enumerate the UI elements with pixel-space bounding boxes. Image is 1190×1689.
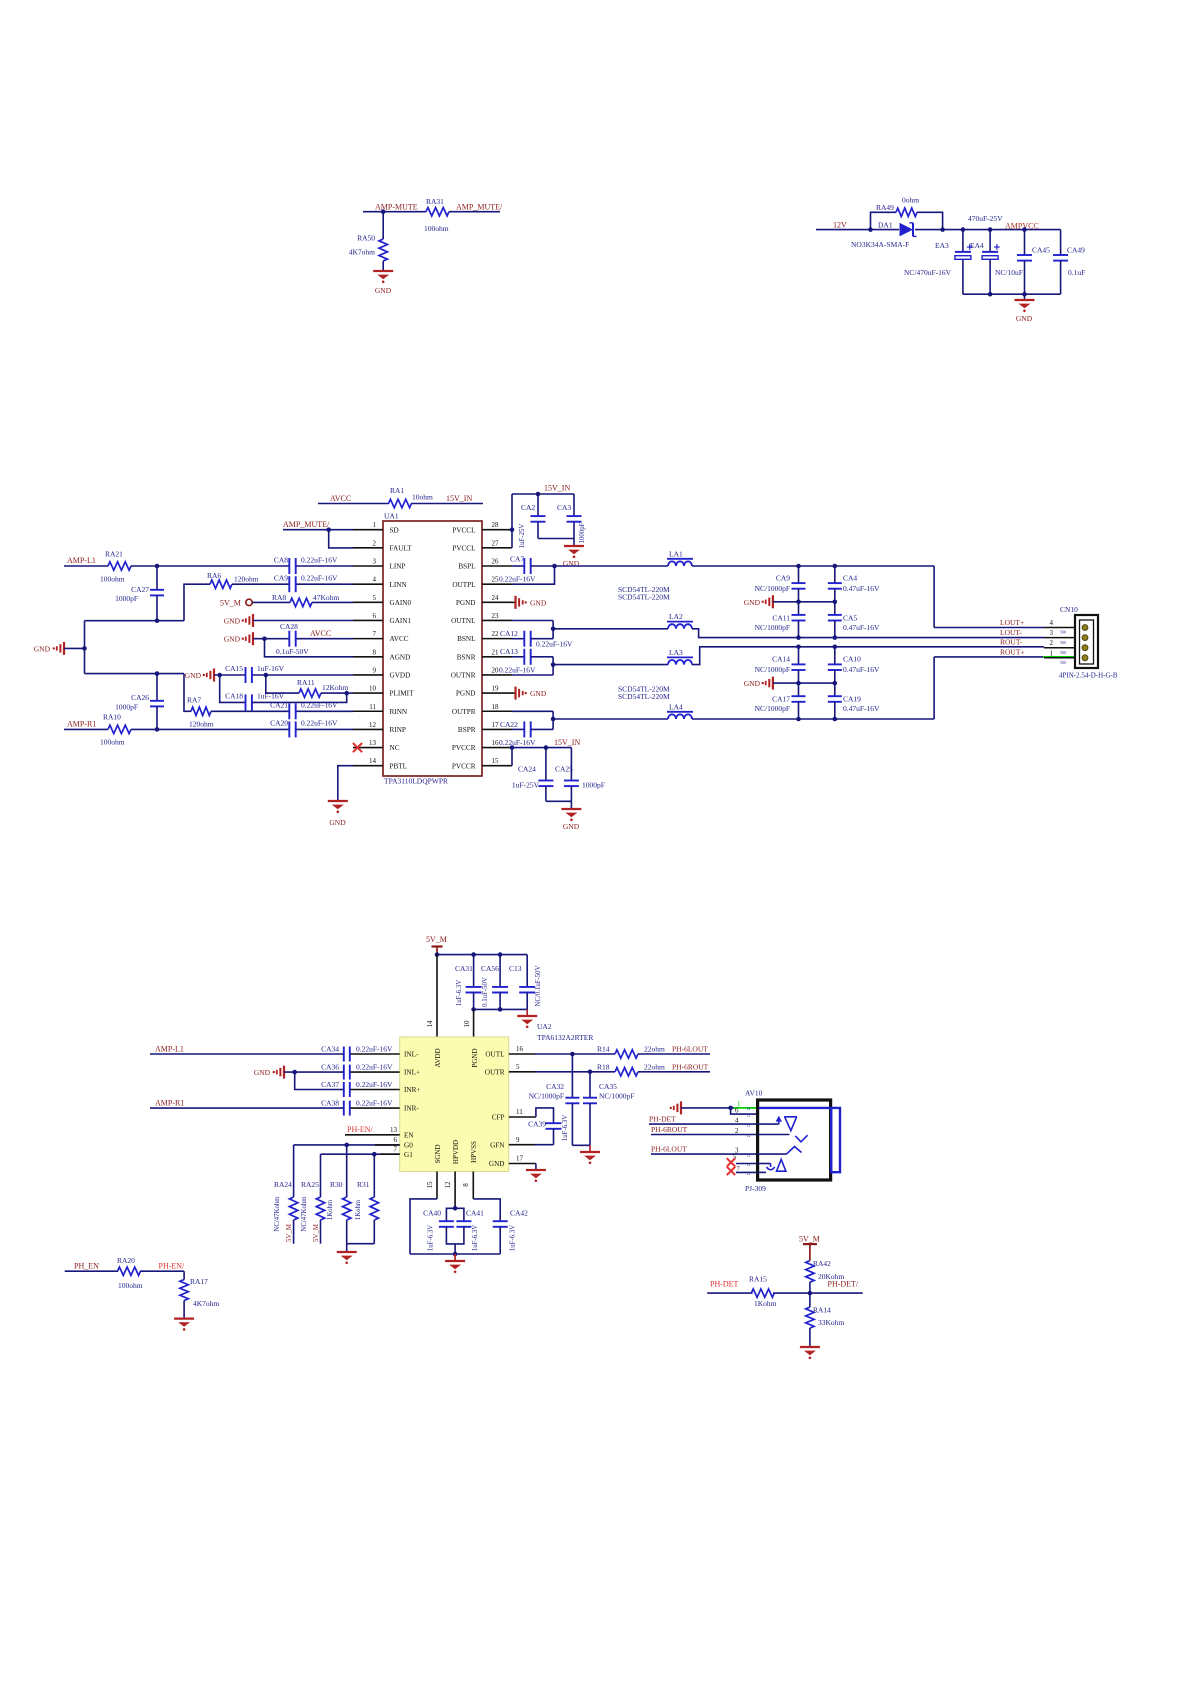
wire OUTR — [535, 1071, 615, 1073]
svg-text:GND: GND — [530, 689, 547, 698]
svg-text:CA40: CA40 — [423, 1209, 441, 1218]
svg-text:4K7ohm: 4K7ohm — [193, 1299, 219, 1308]
capacitor CA56 — [499, 955, 501, 987]
UA1 pin 22 BSNL — [482, 638, 512, 640]
svg-text:100ohm: 100ohm — [100, 575, 125, 584]
svg-text:CA36: CA36 — [321, 1062, 339, 1071]
node CA26 top — [155, 671, 160, 676]
svg-text:LA3: LA3 — [669, 648, 683, 657]
wire ROUT+ green segment — [1043, 656, 1075, 658]
svg-text:RA8: RA8 — [272, 593, 286, 602]
UA2 pin 15 SGND stub — [436, 1172, 438, 1199]
svg-text:12: 12 — [747, 1133, 751, 1138]
svg-text:7: 7 — [373, 630, 377, 638]
resistor R30 — [346, 1145, 348, 1197]
svg-text:12: 12 — [444, 1181, 452, 1189]
node diode anode — [868, 227, 873, 232]
svg-text:33Kohm: 33Kohm — [818, 1318, 844, 1327]
wire SGND to gnd rail — [410, 1199, 437, 1254]
svg-text:ROUT+: ROUT+ — [1000, 648, 1025, 657]
UA1 pin 25 OUTPL — [482, 583, 512, 585]
capacitor CA49 — [1060, 230, 1062, 255]
jack sleeve contact wire — [758, 1153, 787, 1155]
svg-text:AMP_MUTE/: AMP_MUTE/ — [456, 203, 503, 212]
wire to ground — [526, 1009, 528, 1016]
ground at CA3 — [564, 545, 584, 547]
svg-text:AMP-MUTE: AMP-MUTE — [375, 203, 418, 212]
diode DA1 — [900, 223, 914, 237]
wire PBTL to ground — [338, 766, 353, 801]
svg-text:1uF-16V: 1uF-16V — [257, 664, 285, 673]
svg-text:AMP-L1: AMP-L1 — [67, 556, 96, 565]
svg-text:1000pF: 1000pF — [579, 522, 586, 543]
wire RA8 to GAIN0 — [312, 601, 353, 603]
UA2 pin 7 G1 — [321, 1153, 400, 1155]
svg-text:CA38: CA38 — [321, 1098, 339, 1107]
UA1 pin 27 PVCCL — [482, 547, 512, 549]
svg-text:23: 23 — [492, 612, 500, 620]
capacitor CA27 — [156, 566, 158, 590]
svg-text:RA7: RA7 — [187, 696, 201, 705]
svg-text:12V: 12V — [833, 221, 847, 230]
node CA32 tap — [570, 1052, 575, 1057]
wire GND to CA36 — [284, 1071, 344, 1073]
svg-text:20: 20 — [492, 666, 500, 674]
svg-text:PJ-309: PJ-309 — [745, 1184, 766, 1193]
resistor RA24 — [293, 1145, 295, 1197]
svg-text:CA32: CA32 — [546, 1082, 564, 1091]
wire BSPL — [512, 565, 524, 567]
svg-text:INR-: INR- — [404, 1105, 419, 1113]
svg-text:CA21: CA21 — [270, 701, 288, 710]
resistor RA15 — [751, 1289, 774, 1297]
wire to ground — [454, 1254, 456, 1261]
capacitor CA2 — [537, 494, 539, 516]
wire GAIN1 — [253, 620, 353, 622]
svg-text:1: 1 — [1050, 649, 1054, 657]
capacitor CA39 — [546, 1122, 562, 1124]
wire HPVDD box bottom — [446, 1227, 464, 1244]
svg-text:0.22uF-16V: 0.22uF-16V — [499, 575, 536, 584]
svg-text:CA9: CA9 — [274, 574, 288, 583]
svg-text:RA6: RA6 — [207, 571, 221, 580]
svg-text:RA31: RA31 — [426, 197, 444, 206]
svg-text:PH-DET: PH-DET — [649, 1114, 676, 1123]
svg-text:CA45: CA45 — [1032, 246, 1050, 255]
resistor RA8 — [290, 598, 312, 606]
UA1 pin 18 OUTPR — [482, 710, 512, 712]
node OUTNL — [551, 627, 556, 632]
svg-text:18: 18 — [492, 703, 500, 711]
svg-text:0.47uF-16V: 0.47uF-16V — [843, 584, 880, 593]
svg-text:11: 11 — [516, 1108, 523, 1116]
wire to ground — [1024, 294, 1026, 300]
node CA56 top — [498, 952, 503, 957]
svg-text:NC/1000pF: NC/1000pF — [755, 665, 790, 674]
node input gnd — [292, 1070, 297, 1075]
svg-text:4: 4 — [373, 576, 377, 584]
svg-text:4: 4 — [1050, 619, 1054, 627]
node R31 tap — [372, 1152, 377, 1157]
capacitor CA14 — [798, 647, 800, 665]
svg-text:INL-: INL- — [404, 1051, 419, 1059]
junction dots — [796, 645, 801, 650]
wire bottom gnd rail — [410, 1253, 500, 1255]
svg-text:RA20: RA20 — [117, 1256, 135, 1265]
svg-text:1000pF: 1000pF — [115, 703, 138, 712]
wire AMP-L1 to CA34 — [150, 1053, 344, 1055]
svg-text:28: 28 — [492, 521, 500, 529]
svg-text:0.22uF-16V: 0.22uF-16V — [301, 719, 338, 728]
svg-text:AMPVCC: AMPVCC — [1005, 222, 1039, 231]
capacitor CA3 — [573, 494, 575, 516]
jack pin5 contact — [758, 1163, 771, 1165]
capacitor CA21 — [288, 703, 290, 719]
svg-text:RA11: RA11 — [297, 678, 315, 687]
svg-text:OUTPR: OUTPR — [452, 708, 476, 716]
wire LOUT+ — [934, 627, 1044, 629]
svg-text:RA21: RA21 — [105, 550, 123, 559]
ground at jack — [680, 1101, 682, 1114]
capacitor CA17 — [798, 683, 800, 696]
wire OUTNL riser — [531, 638, 553, 640]
capacitor CA13 — [523, 649, 525, 665]
svg-text:NC/1000pF: NC/1000pF — [755, 584, 790, 593]
svg-text:0.22uF-16V: 0.22uF-16V — [356, 1044, 393, 1053]
svg-text:BSPR: BSPR — [458, 726, 476, 734]
wire to ground — [589, 1145, 591, 1152]
UA2 pin 9 GFN — [509, 1144, 535, 1146]
ground at pin17 — [526, 1169, 546, 1171]
ground rail at 601.8 — [772, 595, 774, 608]
svg-text:0.22uF-16V: 0.22uF-16V — [301, 556, 338, 565]
wire PH-DET — [707, 1292, 752, 1294]
capacitor CA10 — [834, 647, 836, 665]
wire AVCC pin — [253, 638, 289, 640]
node CA27 tap — [155, 564, 160, 569]
UA1 pin 28 PVCCL — [482, 529, 512, 531]
svg-text:6: 6 — [735, 1107, 739, 1115]
wire RA50 to ground — [382, 261, 384, 271]
node AGND tie — [262, 636, 267, 641]
wire RA50 to node — [382, 212, 384, 239]
svg-text:RA50: RA50 — [357, 234, 375, 243]
wire pin15 riser — [511, 748, 513, 766]
wire jack pin6 — [731, 1108, 758, 1114]
svg-text:RINN: RINN — [390, 708, 408, 716]
svg-text:0.22uF-16V: 0.22uF-16V — [499, 666, 536, 675]
op-amp U A1 body TPA3110 — [383, 521, 482, 776]
svg-text:1uF-6.3V: 1uF-6.3V — [428, 1225, 435, 1251]
node gnd rail — [453, 1252, 458, 1257]
svg-text:15: 15 — [426, 1181, 434, 1189]
svg-text:0.22uF-16V: 0.22uF-16V — [301, 701, 338, 710]
svg-text:0.22uF-16V: 0.22uF-16V — [301, 574, 338, 583]
wire ground rail — [773, 682, 835, 684]
svg-text:AMP-R1: AMP-R1 — [67, 720, 96, 729]
svg-text:1uF-6.3V: 1uF-6.3V — [456, 980, 463, 1006]
svg-text:3: 3 — [1050, 629, 1054, 637]
resistor RA31 — [426, 208, 449, 216]
svg-text:LINP: LINP — [390, 563, 406, 571]
svg-text:CA42: CA42 — [510, 1209, 528, 1218]
wire trunk bottom rail — [85, 673, 185, 675]
svg-text:25: 25 — [492, 576, 500, 584]
capacitor CA15 — [245, 667, 247, 683]
svg-text:NC/1000pF: NC/1000pF — [755, 704, 790, 713]
svg-text:0.22uF-16V: 0.22uF-16V — [536, 640, 573, 649]
svg-text:RINP: RINP — [390, 726, 406, 734]
svg-text:R14: R14 — [597, 1045, 610, 1054]
svg-text:PGND: PGND — [456, 690, 476, 698]
svg-text:GND: GND — [489, 1160, 505, 1168]
wire ground rail — [773, 601, 835, 603]
svg-text:NC/0.1uF-50V: NC/0.1uF-50V — [535, 965, 542, 1006]
wire CFP to CA39 — [536, 1108, 554, 1123]
svg-text:NC/47Kohm: NC/47Kohm — [274, 1196, 281, 1232]
svg-text:LINN: LINN — [390, 581, 408, 589]
svg-text:BSPL: BSPL — [458, 563, 475, 571]
svg-text:12: 12 — [747, 1153, 751, 1158]
capacitor EA4 — [989, 230, 991, 252]
svg-text:RA24: RA24 — [274, 1180, 292, 1189]
wire RA7 to CA21 — [211, 710, 289, 712]
UA1 pin 21 BSNR — [482, 656, 512, 658]
capacitor CA26 — [156, 674, 158, 701]
ground at CA35 — [580, 1151, 600, 1153]
UA2 pin 6 G0 — [294, 1144, 400, 1146]
svg-text:GND: GND — [329, 818, 346, 827]
svg-text:CA15: CA15 — [225, 664, 243, 673]
svg-text:120ohm: 120ohm — [234, 575, 259, 584]
svg-text:UA1: UA1 — [384, 512, 399, 521]
capacitor CA7 — [523, 558, 525, 574]
svg-text:1000pF: 1000pF — [115, 594, 138, 603]
svg-text:0.1uF-50V: 0.1uF-50V — [482, 977, 489, 1007]
node CA18 left tie — [217, 673, 222, 678]
svg-text:AGND: AGND — [390, 653, 411, 661]
jack detect contact V — [784, 1117, 797, 1131]
ground at RA14 — [800, 1346, 820, 1348]
node CA31 top — [471, 952, 476, 957]
wire RA49 bypass branch — [871, 212, 897, 229]
wire CA24 CA25 bottom — [546, 800, 572, 802]
node GND stem — [1022, 292, 1027, 297]
wire 15V_IN top rail — [512, 493, 574, 495]
inductor LA2 — [668, 624, 692, 629]
wire ROUT+ — [934, 656, 1043, 658]
capacitor CA18 — [245, 694, 247, 710]
wire GVDD to RA11 — [266, 675, 299, 693]
node RA11 left — [264, 673, 269, 678]
node CA24 top — [544, 745, 549, 750]
node EA4 top — [988, 227, 993, 232]
resistor R14 — [615, 1050, 638, 1058]
resistor RA17 — [180, 1280, 188, 1301]
wire 5V_M to RA8 — [252, 601, 290, 603]
svg-text:3: 3 — [373, 558, 377, 566]
svg-text:27: 27 — [492, 539, 500, 547]
svg-text:CA9: CA9 — [776, 573, 790, 582]
wire AMPVCC ground rail — [963, 293, 1061, 295]
capacitor CA36 — [343, 1065, 345, 1080]
ground at AVCC — [252, 632, 254, 645]
svg-text:OUTPL: OUTPL — [452, 581, 475, 589]
wire LA3 step — [692, 647, 1044, 665]
UA1 pin 15 PVCCR — [482, 765, 512, 767]
svg-text:7: 7 — [394, 1146, 398, 1154]
svg-text:RA42: RA42 — [813, 1259, 831, 1268]
svg-text:CA34: CA34 — [321, 1044, 339, 1053]
svg-text:2: 2 — [1050, 639, 1054, 647]
UA1 pin 20 OUTNR — [482, 674, 512, 676]
svg-text:SD: SD — [390, 526, 399, 534]
svg-text:GAIN1: GAIN1 — [390, 617, 412, 625]
svg-text:500: 500 — [1060, 640, 1066, 645]
svg-text:PLIMIT: PLIMIT — [390, 690, 415, 698]
svg-text:8: 8 — [462, 1183, 470, 1187]
svg-text:PGND: PGND — [471, 1048, 479, 1067]
svg-text:HPVDD: HPVDD — [452, 1140, 460, 1164]
svg-text:2: 2 — [373, 539, 377, 547]
capacitor CA12 — [523, 631, 525, 647]
wire gnd to CA37 — [295, 1072, 344, 1089]
capacitor CA35 — [589, 1072, 591, 1098]
svg-text:22ohm: 22ohm — [644, 1062, 665, 1071]
resistor RA1 — [389, 499, 412, 507]
UA1 pin 3 LINP — [353, 565, 383, 567]
wire jack pin7 — [736, 1171, 758, 1173]
svg-text:PVCCR: PVCCR — [452, 744, 476, 752]
svg-text:RA49: RA49 — [876, 203, 894, 212]
UA2 pin 10 PGND stub — [473, 1009, 475, 1037]
capacitor CA38 — [343, 1101, 345, 1116]
wire OUTPR to LA4 — [553, 718, 668, 720]
svg-text:PBTL: PBTL — [390, 762, 408, 770]
svg-text:0.22uF-16V: 0.22uF-16V — [356, 1080, 393, 1089]
svg-text:10: 10 — [369, 685, 377, 693]
node pin28 — [510, 527, 515, 532]
node OUTPL — [552, 564, 557, 569]
svg-text:0ohm: 0ohm — [902, 196, 919, 205]
svg-text:4K7ohm: 4K7ohm — [349, 248, 375, 257]
jack pin7 contact — [758, 1171, 766, 1173]
node CA27 bottom — [155, 618, 160, 623]
UA2 pin 16 OUTL — [509, 1053, 535, 1055]
UA1 pin 23 OUTNL — [482, 619, 512, 621]
svg-text:PVCCR: PVCCR — [452, 762, 476, 770]
svg-text:0.1uF-50V: 0.1uF-50V — [276, 647, 309, 656]
ground at R30 — [337, 1251, 357, 1253]
svg-text:1uF-6.3V: 1uF-6.3V — [562, 1115, 569, 1141]
svg-text:INL+: INL+ — [404, 1069, 420, 1077]
svg-text:PH_EN: PH_EN — [74, 1261, 99, 1270]
UA1 pin 14 PBTL — [353, 765, 383, 767]
svg-text:EN: EN — [404, 1131, 414, 1139]
wire RA42 to node — [809, 1282, 811, 1307]
svg-text:PH-DET/: PH-DET/ — [828, 1279, 859, 1288]
svg-text:OUTL: OUTL — [485, 1051, 504, 1059]
op-amp U A2 body TPA6132A2 — [400, 1037, 509, 1172]
UA2 pin 11 CFP — [509, 1116, 536, 1118]
svg-text:AVCC: AVCC — [390, 635, 409, 643]
svg-text:12Kohm: 12Kohm — [322, 683, 348, 692]
node SD-FAULT tie — [326, 527, 331, 532]
svg-text:RA10: RA10 — [103, 713, 121, 722]
svg-text:SGND: SGND — [434, 1144, 442, 1163]
svg-text:CA39: CA39 — [528, 1120, 546, 1129]
svg-text:5V_M: 5V_M — [220, 599, 241, 608]
wire AVCC to 15V_IN — [318, 503, 389, 505]
svg-text:10: 10 — [463, 1020, 471, 1028]
wire BSPR — [512, 728, 524, 730]
svg-text:1: 1 — [373, 521, 377, 529]
svg-text:CN10: CN10 — [1060, 605, 1078, 614]
svg-text:CA5: CA5 — [843, 613, 857, 622]
svg-text:12: 12 — [369, 721, 377, 729]
wire AGND — [265, 639, 354, 657]
ground rail at 683.1 — [772, 677, 774, 690]
node AVDD — [435, 952, 440, 957]
wire 12V rail — [816, 229, 899, 231]
UA1 pin 17 BSPR — [482, 728, 512, 730]
node PLIMIT tie — [344, 691, 349, 696]
svg-text:GND: GND — [224, 617, 241, 626]
node PGND — [471, 1007, 476, 1012]
svg-text:LOUT+: LOUT+ — [1000, 618, 1024, 627]
UA2 pin 17 GND — [509, 1163, 536, 1165]
capacitor CA24 — [545, 748, 547, 781]
wire PVCCR rail — [512, 747, 571, 749]
UA2 pin INL+ stub — [351, 1071, 400, 1073]
svg-text:PH-6ROUT: PH-6ROUT — [672, 1062, 709, 1071]
svg-text:G1: G1 — [404, 1151, 413, 1159]
svg-text:PVCCL: PVCCL — [452, 526, 475, 534]
svg-text:AV10: AV10 — [745, 1089, 763, 1098]
UA1 pin 19 PGND — [482, 692, 512, 694]
svg-text:TPA3110LDQPWPR: TPA3110LDQPWPR — [384, 777, 448, 786]
jack ring contact check — [795, 1135, 807, 1142]
svg-text:OUTNL: OUTNL — [451, 617, 475, 625]
ground at C13 — [517, 1015, 537, 1017]
svg-text:R18: R18 — [597, 1062, 610, 1071]
UA2 pin 5 OUTR — [509, 1071, 535, 1073]
wire jack pin1 green — [734, 1107, 758, 1109]
svg-text:0.22uF-16V: 0.22uF-16V — [356, 1098, 393, 1107]
svg-text:6: 6 — [373, 612, 377, 620]
svg-text:17: 17 — [492, 721, 500, 729]
svg-text:5V_M: 5V_M — [426, 935, 447, 944]
svg-text:1Kohm: 1Kohm — [327, 1199, 334, 1220]
svg-text:15V_IN: 15V_IN — [446, 494, 472, 503]
capacitor CA20 — [288, 721, 290, 737]
resistor RA6 — [210, 580, 232, 588]
svg-text:PH-DET: PH-DET — [710, 1279, 739, 1288]
CN10 pin 4 pad — [1082, 625, 1088, 631]
svg-text:CA37: CA37 — [321, 1080, 339, 1089]
jack ring contact wire — [758, 1134, 790, 1136]
svg-text:CA41: CA41 — [466, 1209, 484, 1218]
node CA56 bottom — [498, 1007, 503, 1012]
svg-text:4: 4 — [735, 1117, 739, 1125]
svg-text:5: 5 — [516, 1063, 520, 1071]
svg-text:PH-6ROUT: PH-6ROUT — [651, 1125, 688, 1134]
node EA4 bottom — [988, 292, 993, 297]
wire GFN to CA39 — [535, 1144, 554, 1146]
wire BSNR — [512, 656, 524, 658]
wire OUTNR riser — [531, 656, 553, 658]
svg-text:0.22uF-16V: 0.22uF-16V — [499, 738, 536, 747]
